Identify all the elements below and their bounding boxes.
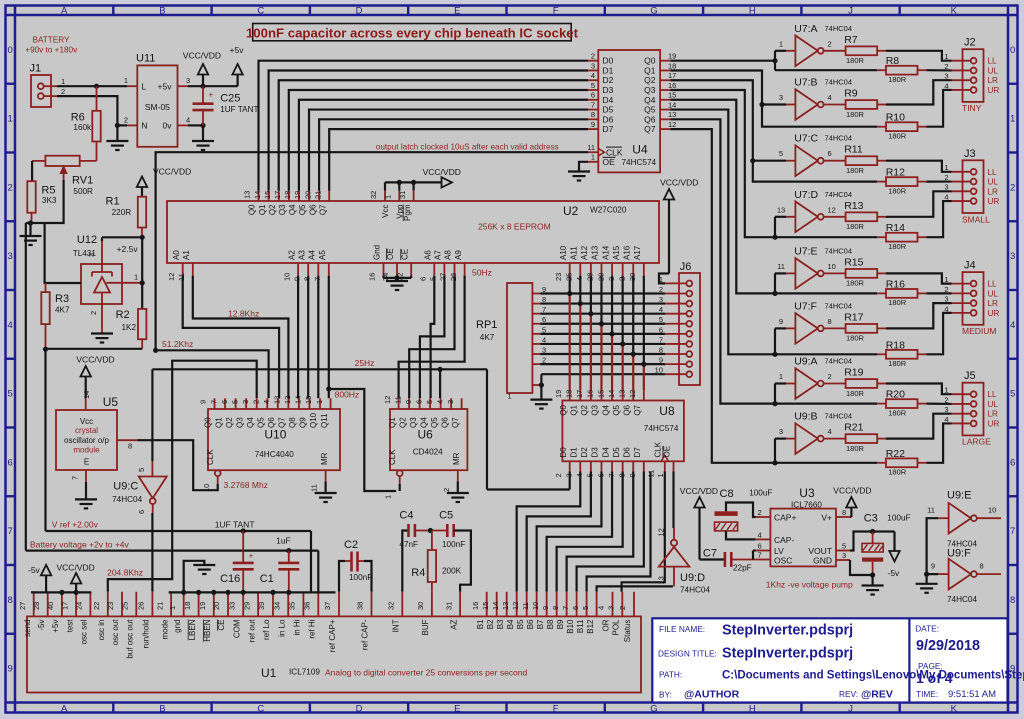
svg-text:RP1: RP1 <box>476 319 497 331</box>
svg-text:180R: 180R <box>846 110 865 119</box>
wire R11 to J3.1 <box>886 161 952 172</box>
svg-text:A: A <box>61 703 68 714</box>
svg-text:UR: UR <box>988 86 1000 95</box>
resistor R10 <box>877 112 926 141</box>
svg-text:CLK: CLK <box>388 449 397 465</box>
svg-text:A9: A9 <box>454 250 463 260</box>
U8 CLK pin <box>647 441 669 477</box>
svg-text:H: H <box>749 703 756 714</box>
svg-text:10: 10 <box>828 262 836 271</box>
svg-text:20: 20 <box>212 602 221 610</box>
svg-text:4: 4 <box>758 530 762 539</box>
svg-text:2: 2 <box>61 87 65 96</box>
wire A2 to U10.Q8 <box>297 276 299 399</box>
svg-text:10: 10 <box>282 273 291 281</box>
svg-text:1Khz -ve voltage pump: 1Khz -ve voltage pump <box>766 580 853 590</box>
wire U1 power rail <box>31 590 91 595</box>
svg-text:1: 1 <box>61 77 65 86</box>
svg-text:send: send <box>23 620 32 637</box>
svg-text:C5: C5 <box>439 510 453 522</box>
capacitor C3 <box>862 513 911 576</box>
wire R13 to J3.3 <box>886 191 952 217</box>
svg-text:180R: 180R <box>888 132 907 141</box>
svg-text:6: 6 <box>758 542 762 551</box>
svg-text:D7: D7 <box>633 447 642 458</box>
svg-text:13: 13 <box>501 602 510 610</box>
svg-text:MR: MR <box>452 452 461 465</box>
svg-text:Q3: Q3 <box>235 417 244 428</box>
svg-text:14: 14 <box>491 602 500 610</box>
svg-text:C4: C4 <box>399 510 413 522</box>
wire R22 to J5.4 <box>926 423 951 462</box>
svg-text:Battery voltage +2v to +4v: Battery voltage +2v to +4v <box>30 540 130 550</box>
wire U4 OE to ground <box>568 162 590 181</box>
U8 bottom pins D0-D7 <box>554 447 644 478</box>
wire U3 GND to ground <box>850 560 884 595</box>
svg-text:34: 34 <box>272 602 281 610</box>
svg-text:3: 3 <box>591 61 595 70</box>
inverter U7:B <box>779 77 852 120</box>
svg-text:3: 3 <box>564 473 573 477</box>
svg-text:2: 2 <box>828 39 832 48</box>
svg-text:+: + <box>249 552 254 561</box>
svg-text:25Hz: 25Hz <box>355 358 375 368</box>
svg-text:12: 12 <box>383 396 392 404</box>
inverter U9:A <box>779 356 852 399</box>
svg-text:U7:A: U7:A <box>794 23 817 35</box>
svg-text:74HC04: 74HC04 <box>680 586 710 595</box>
svg-text:Q7: Q7 <box>318 204 327 215</box>
svg-text:A15: A15 <box>612 245 621 260</box>
svg-text:13: 13 <box>657 576 666 584</box>
svg-text:PATH:: PATH: <box>659 670 682 680</box>
connector J1 <box>30 63 66 108</box>
connector J4 <box>944 260 999 337</box>
svg-text:9: 9 <box>541 606 550 610</box>
svg-text:ref out: ref out <box>247 619 256 642</box>
svg-text:in Hi: in Hi <box>293 619 302 635</box>
svg-text:15: 15 <box>304 396 313 404</box>
svg-text:12: 12 <box>167 273 176 281</box>
svg-text:2: 2 <box>124 115 128 124</box>
svg-text:11: 11 <box>521 602 530 610</box>
svg-text:U10: U10 <box>264 428 286 442</box>
svg-text:1uF: 1uF <box>276 536 291 546</box>
svg-text:23: 23 <box>554 273 563 281</box>
wire A6 to U6.Q4 <box>431 276 435 399</box>
resistor R17 <box>844 311 886 342</box>
wire Vcc/Vpp/Pgm rail with VCC/VDD arrow <box>385 167 461 191</box>
svg-text:Q11: Q11 <box>320 413 329 428</box>
svg-text:Q3: Q3 <box>644 85 656 95</box>
svg-text:74HC04: 74HC04 <box>825 246 853 255</box>
svg-text:R2: R2 <box>116 309 130 321</box>
svg-text:buf osc out: buf osc out <box>126 619 135 659</box>
wire U9:C out to U1 run/hold <box>151 513 153 592</box>
svg-text:U4: U4 <box>632 143 648 157</box>
wire R7 to J2.1 <box>886 51 952 61</box>
svg-text:26: 26 <box>449 273 458 281</box>
svg-text:6: 6 <box>419 277 428 281</box>
svg-text:U3: U3 <box>799 486 815 500</box>
svg-text:Q0: Q0 <box>559 404 568 415</box>
resistor R20 <box>877 389 926 418</box>
svg-text:74HC04: 74HC04 <box>825 78 853 87</box>
resistor R18 <box>877 339 926 368</box>
svg-text:D4: D4 <box>601 447 610 458</box>
svg-text:D: D <box>356 703 363 714</box>
svg-text:A17: A17 <box>633 245 642 260</box>
svg-text:12: 12 <box>657 528 666 536</box>
svg-text:5: 5 <box>842 542 846 551</box>
svg-text:3: 3 <box>241 400 250 404</box>
svg-text:CE: CE <box>217 620 226 631</box>
svg-text:4: 4 <box>1010 320 1015 331</box>
svg-text:D1: D1 <box>603 65 614 75</box>
svg-text:BATTERY: BATTERY <box>32 36 70 45</box>
svg-text:14: 14 <box>253 191 262 199</box>
wire A5 to U10.Q11 800Hz <box>326 276 331 399</box>
svg-text:7: 7 <box>758 551 762 560</box>
note banner <box>246 24 579 41</box>
svg-text:28: 28 <box>32 602 41 610</box>
svg-text:14: 14 <box>294 396 303 404</box>
wire R14 to J3.4 <box>926 201 951 237</box>
svg-text:9: 9 <box>404 400 413 404</box>
svg-text:U5: U5 <box>103 395 119 409</box>
wire U4.Q6 to U9:A <box>670 119 877 406</box>
U4 CLK pin <box>587 143 623 158</box>
svg-text:Q2: Q2 <box>580 404 589 415</box>
svg-text:256K x 8 EEPROM: 256K x 8 EEPROM <box>478 222 551 232</box>
svg-text:Q8: Q8 <box>288 417 297 428</box>
latch U4 74HC574 <box>598 50 660 172</box>
power flag -5v at U1 <box>28 565 51 593</box>
wire U4.Q0 to U7:A <box>670 51 877 70</box>
svg-text:C16: C16 <box>220 573 240 585</box>
svg-text:V ref +2.00v: V ref +2.00v <box>52 520 99 530</box>
inverter U7:A <box>779 23 852 66</box>
svg-text:INT: INT <box>392 619 401 632</box>
ground below U5 <box>75 482 97 508</box>
svg-text:100nF capacitor across every c: 100nF capacitor across every chip beneat… <box>246 25 579 40</box>
svg-text:8: 8 <box>828 317 832 326</box>
connector J3 <box>944 148 999 225</box>
svg-text:35: 35 <box>288 602 297 610</box>
ground below C25 <box>192 125 214 150</box>
svg-text:OE: OE <box>663 446 672 458</box>
svg-text:3K3: 3K3 <box>42 196 57 205</box>
svg-text:oscillator o/p: oscillator o/p <box>64 436 109 445</box>
svg-text:Q3: Q3 <box>278 204 287 215</box>
svg-text:11: 11 <box>587 143 595 152</box>
svg-text:12: 12 <box>628 390 637 398</box>
svg-text:14: 14 <box>607 390 616 398</box>
svg-text:1: 1 <box>1010 114 1015 125</box>
svg-text:7: 7 <box>209 400 218 404</box>
power flag VCC/VDD near C7 <box>680 486 718 560</box>
svg-text:U11: U11 <box>136 53 155 65</box>
svg-text:1K2: 1K2 <box>122 323 137 332</box>
wire A4 to U10.Q10 <box>317 276 319 399</box>
wire R20 to J5.2 <box>926 403 951 406</box>
svg-text:module: module <box>73 446 100 455</box>
svg-text:74HC04: 74HC04 <box>825 412 853 421</box>
U2 bottom pins A0-A9 Gnd OE CE <box>167 245 465 281</box>
bus U2.Q to U4.D wires <box>259 61 589 191</box>
svg-text:+5v: +5v <box>158 81 173 91</box>
wire A1 to U10.Q7 12.8Khz <box>193 276 289 399</box>
svg-text:3: 3 <box>779 427 783 436</box>
svg-text:A11: A11 <box>569 246 578 260</box>
svg-text:100uF: 100uF <box>887 514 910 523</box>
svg-text:30: 30 <box>416 602 425 610</box>
inverter U7:C <box>779 133 852 176</box>
svg-text:Q4: Q4 <box>288 204 297 215</box>
U8 OE pin <box>656 446 674 478</box>
svg-text:VCC/VDD: VCC/VDD <box>680 486 718 496</box>
svg-text:16: 16 <box>471 602 480 610</box>
resistor R4 <box>411 528 461 592</box>
svg-text:5: 5 <box>8 389 13 400</box>
oscillator module U5 <box>56 391 137 482</box>
capacitor C1 <box>260 536 300 593</box>
svg-text:17: 17 <box>575 390 584 398</box>
svg-text:11: 11 <box>310 484 319 492</box>
svg-text:25: 25 <box>121 602 130 610</box>
capacitor C25 <box>193 86 259 125</box>
wire 800Hz to U6.CLK <box>329 389 396 491</box>
svg-text:18: 18 <box>564 390 573 398</box>
svg-text:R19: R19 <box>844 367 863 379</box>
svg-text:74HC04: 74HC04 <box>825 134 853 143</box>
svg-text:D4: D4 <box>603 95 614 105</box>
inverter U9:C <box>112 461 167 514</box>
resistor R12 <box>877 167 926 196</box>
power flag VCC/VDD above U5 <box>76 355 114 399</box>
title block <box>652 618 1024 702</box>
svg-text:UR: UR <box>988 419 1000 428</box>
svg-text:UL: UL <box>988 400 999 409</box>
wire U4.Q2 to U7:C <box>670 80 877 181</box>
svg-text:D0: D0 <box>603 56 614 66</box>
wire +2.5v node <box>102 235 145 309</box>
resistor R7 <box>844 34 886 65</box>
wire A8 to U6.Q2 <box>409 276 454 399</box>
wire U4.Q7 to U9:B <box>670 129 877 465</box>
svg-text:E: E <box>454 703 460 714</box>
svg-text:74HC574: 74HC574 <box>622 158 657 167</box>
resistor pack RP1 <box>476 283 546 401</box>
wire R17 to J4.3 <box>886 303 952 328</box>
svg-text:6: 6 <box>1010 457 1015 468</box>
svg-text:OE: OE <box>386 248 395 260</box>
capacitor C16 <box>215 520 255 593</box>
svg-text:crystal: crystal <box>75 426 98 435</box>
U10 MR pin to ground <box>310 470 337 502</box>
svg-text:204.8Khz: 204.8Khz <box>107 568 143 578</box>
svg-text:180R: 180R <box>888 186 907 195</box>
label BATTERY <box>25 36 78 55</box>
svg-text:33: 33 <box>227 602 236 610</box>
svg-text:U8: U8 <box>659 404 675 418</box>
svg-text:6: 6 <box>8 457 13 468</box>
svg-text:6: 6 <box>571 606 580 610</box>
svg-text:Q5: Q5 <box>298 204 307 215</box>
inverter U9:D <box>657 528 711 595</box>
svg-text:V+: V+ <box>821 513 832 523</box>
bus U1.B to U8.D wires <box>517 472 673 592</box>
svg-text:20: 20 <box>303 191 312 199</box>
svg-text:1: 1 <box>134 273 138 282</box>
svg-text:1: 1 <box>384 195 393 199</box>
svg-text:2: 2 <box>251 400 260 404</box>
node R3 bottom <box>43 347 142 352</box>
svg-text:VCC/VDD: VCC/VDD <box>833 486 871 496</box>
svg-text:test: test <box>65 619 74 633</box>
svg-text:BUF: BUF <box>421 619 430 635</box>
svg-text:A8: A8 <box>444 250 453 260</box>
svg-text:Q5: Q5 <box>644 105 656 115</box>
ground at U1 gnd pin <box>184 561 216 593</box>
svg-text:J: J <box>848 5 853 16</box>
svg-text:Q4: Q4 <box>601 404 610 415</box>
svg-text:Q7: Q7 <box>644 124 656 134</box>
svg-text:12: 12 <box>283 396 292 404</box>
power flag VCC/VDD at U3 V+ <box>833 486 871 518</box>
power flag VCC/VDD at U1 <box>57 563 95 593</box>
svg-text:W27C020: W27C020 <box>590 206 627 215</box>
svg-text:-5v: -5v <box>888 568 901 578</box>
resistor R21 <box>844 422 886 453</box>
svg-text:LR: LR <box>988 76 999 85</box>
svg-text:Vcc: Vcc <box>80 417 93 426</box>
svg-text:J3: J3 <box>964 148 976 160</box>
svg-text:Q2: Q2 <box>644 75 656 85</box>
svg-text:12: 12 <box>668 120 676 129</box>
svg-text:B9: B9 <box>556 619 565 629</box>
svg-text:A4: A4 <box>308 250 317 260</box>
svg-text:8: 8 <box>980 561 984 570</box>
svg-text:VCC/VDD: VCC/VDD <box>660 178 698 188</box>
inverter U9:F <box>931 548 1001 605</box>
svg-text:B7: B7 <box>536 619 545 629</box>
svg-text:D0: D0 <box>559 447 568 458</box>
svg-text:74HC4040: 74HC4040 <box>255 450 295 459</box>
svg-text:B11: B11 <box>576 619 585 633</box>
svg-text:180R: 180R <box>846 56 865 65</box>
U1 top pins <box>18 592 634 659</box>
svg-text:1: 1 <box>508 392 512 401</box>
svg-text:22pF: 22pF <box>733 564 752 573</box>
svg-text:K: K <box>951 5 958 16</box>
latch U8 74HC574 <box>562 401 684 462</box>
svg-text:LR: LR <box>988 187 999 196</box>
svg-text:24: 24 <box>75 602 84 610</box>
svg-text:UR: UR <box>988 309 1000 318</box>
svg-text:Q7: Q7 <box>278 417 287 428</box>
svg-text:9: 9 <box>8 664 13 675</box>
inverter U9:E <box>927 490 1001 549</box>
svg-text:4: 4 <box>828 427 832 436</box>
svg-text:21: 21 <box>155 602 164 610</box>
svg-text:CD4024: CD4024 <box>413 448 443 457</box>
wire RP1 common to ground <box>530 374 552 408</box>
svg-text:R17: R17 <box>844 311 863 323</box>
svg-text:LBEN: LBEN <box>188 619 197 640</box>
ground U12 pin2 <box>91 304 113 343</box>
wire U2 Gnd OE CE to ground <box>384 275 412 290</box>
svg-text:180R: 180R <box>846 279 865 288</box>
svg-text:CLK: CLK <box>654 441 663 457</box>
svg-text:Q3: Q3 <box>409 417 418 428</box>
svg-text:R7: R7 <box>844 34 858 46</box>
svg-text:Q5: Q5 <box>430 417 439 428</box>
svg-text:1UF TANT: 1UF TANT <box>215 520 255 530</box>
svg-text:B2: B2 <box>486 619 495 629</box>
svg-text:180R: 180R <box>888 408 907 417</box>
svg-text:5: 5 <box>591 81 595 90</box>
svg-text:K: K <box>951 703 958 714</box>
svg-text:U7:E: U7:E <box>794 245 817 257</box>
power flag -5v <box>888 532 901 579</box>
svg-text:A1: A1 <box>182 250 191 260</box>
svg-text:1 of 4: 1 of 4 <box>916 670 953 686</box>
svg-text:19: 19 <box>668 52 676 61</box>
svg-text:37: 37 <box>323 602 332 610</box>
svg-text:R11: R11 <box>844 144 863 156</box>
U6 MR pin to ground <box>442 470 469 502</box>
svg-text:U1: U1 <box>261 666 277 680</box>
svg-text:U12: U12 <box>77 234 97 246</box>
inverter U7:E <box>777 245 852 288</box>
svg-text:74HC04: 74HC04 <box>825 190 853 199</box>
svg-text:6: 6 <box>414 400 423 404</box>
counter U6 CD4024 <box>388 409 467 470</box>
svg-text:CLK: CLK <box>606 147 623 157</box>
inverter U7:D <box>777 189 852 232</box>
svg-text:J4: J4 <box>964 260 976 272</box>
connector J6 <box>655 261 700 385</box>
svg-text:74HC04: 74HC04 <box>825 24 853 33</box>
svg-text:Q6: Q6 <box>644 114 656 124</box>
svg-text:17: 17 <box>668 71 676 80</box>
svg-text:8: 8 <box>8 595 13 606</box>
svg-text:D1: D1 <box>569 447 578 458</box>
svg-text:A2: A2 <box>287 250 296 260</box>
svg-text:U7:D: U7:D <box>794 189 818 201</box>
wire U9:E U9:F inputs to ground <box>916 518 938 593</box>
wire U8 CLK to U1 POL <box>622 472 665 592</box>
svg-text:B3: B3 <box>496 619 505 629</box>
svg-text:5: 5 <box>581 606 590 610</box>
svg-text:J6: J6 <box>680 261 692 273</box>
svg-text:RV1: RV1 <box>72 175 93 187</box>
svg-text:Q2: Q2 <box>225 417 234 428</box>
svg-text:32: 32 <box>387 602 396 610</box>
svg-text:R1: R1 <box>106 196 120 208</box>
svg-text:G: G <box>650 703 657 714</box>
potentiometer RV1 <box>32 156 96 196</box>
counter U10 74HC4040 <box>206 409 340 470</box>
svg-text:7: 7 <box>591 100 595 109</box>
svg-text:7: 7 <box>1010 526 1015 537</box>
wire A7 to U6.Q3 <box>420 276 445 399</box>
svg-text:0: 0 <box>8 45 13 56</box>
connector J5 <box>944 370 999 447</box>
svg-text:J1: J1 <box>30 63 42 75</box>
svg-text:LARGE: LARGE <box>962 437 991 447</box>
